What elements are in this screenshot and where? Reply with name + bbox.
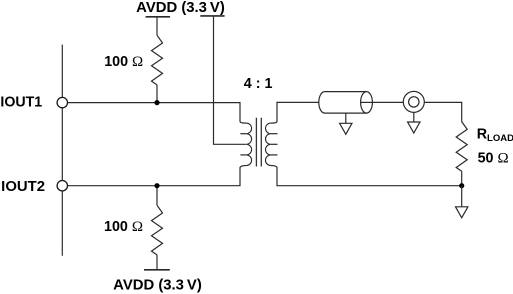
svg-text:100 Ω: 100 Ω xyxy=(104,219,143,235)
wire IOUT1 rail to transformer primary top xyxy=(68,103,247,124)
transformer T1 secondary junction tick 3 xyxy=(271,154,278,156)
coax cable body xyxy=(319,92,367,114)
transformer T1 primary junction tick 1 xyxy=(240,133,246,135)
terminal circle IOUT2 xyxy=(57,181,67,191)
transformer T1 secondary winding loops xyxy=(265,123,270,165)
resistor RLOAD zigzag xyxy=(456,122,467,172)
resistor R1 zigzag xyxy=(152,35,163,85)
resistor R1 100 ohm top: wire from rail xyxy=(156,17,158,35)
svg-text:IOUT1: IOUT1 xyxy=(0,94,42,110)
resistor RLOAD wire to bottom rail xyxy=(461,171,463,185)
svg-text:50 Ω: 50 Ω xyxy=(478,150,509,166)
resistor R2 zigzag xyxy=(152,205,163,255)
svg-text:4 : 1: 4 : 1 xyxy=(244,76,273,92)
wire secondary top lead to coax xyxy=(271,102,319,123)
junction dot R1/IOUT1 xyxy=(154,100,159,105)
power rail AVDD top (for center tap) xyxy=(200,15,224,17)
terminal circle IOUT1 xyxy=(57,97,67,107)
ground stub bottom right xyxy=(461,186,463,207)
svg-text:IOUT2: IOUT2 xyxy=(1,179,45,195)
transformer T1 primary winding loops xyxy=(246,123,251,165)
coax center conductor through ellipse xyxy=(361,101,373,103)
transformer T1 core xyxy=(255,118,257,167)
resistor R1 wire to IOUT1 rail xyxy=(156,85,158,103)
transformer T1 secondary junction tick 1 xyxy=(271,133,278,135)
power rail AVDD top (for R1) xyxy=(146,16,171,18)
wire left vertical bus xyxy=(61,45,63,256)
connector ground arrow xyxy=(408,122,420,133)
wire coax output to load resistor top xyxy=(361,102,462,121)
connector ground stub xyxy=(413,112,415,122)
resistor R2 100 ohm bottom: wire from IOUT2 rail xyxy=(156,186,158,206)
connector J1 outer circle xyxy=(403,91,424,112)
svg-text:RLOAD: RLOAD xyxy=(477,126,513,144)
resistor R2 wire to bottom rail xyxy=(156,255,158,270)
svg-text:100 Ω: 100 Ω xyxy=(104,54,143,70)
wire secondary bottom lead to load xyxy=(271,166,462,186)
junction dot RLOAD/bottom rail xyxy=(459,183,464,188)
wire IOUT2 rail from transformer primary bottom xyxy=(68,166,247,186)
wire AVDD center-tap feed xyxy=(214,17,247,145)
connector J1 inner circle xyxy=(409,97,419,107)
coax shield ground arrow xyxy=(340,123,352,134)
power rail AVDD bottom xyxy=(144,269,170,271)
coax shield ground stub xyxy=(345,113,347,123)
junction dot R2/IOUT2 xyxy=(154,183,159,188)
svg-text:AVDD (3.3 V): AVDD (3.3 V) xyxy=(113,277,202,293)
coax cable end ellipse xyxy=(361,92,373,114)
ground arrow bottom right xyxy=(456,207,468,218)
transformer T1 primary junction tick 3 xyxy=(240,154,246,156)
svg-text:AVDD (3.3 V): AVDD (3.3 V) xyxy=(136,0,225,16)
transformer T1 secondary junction tick 2 xyxy=(271,143,278,145)
